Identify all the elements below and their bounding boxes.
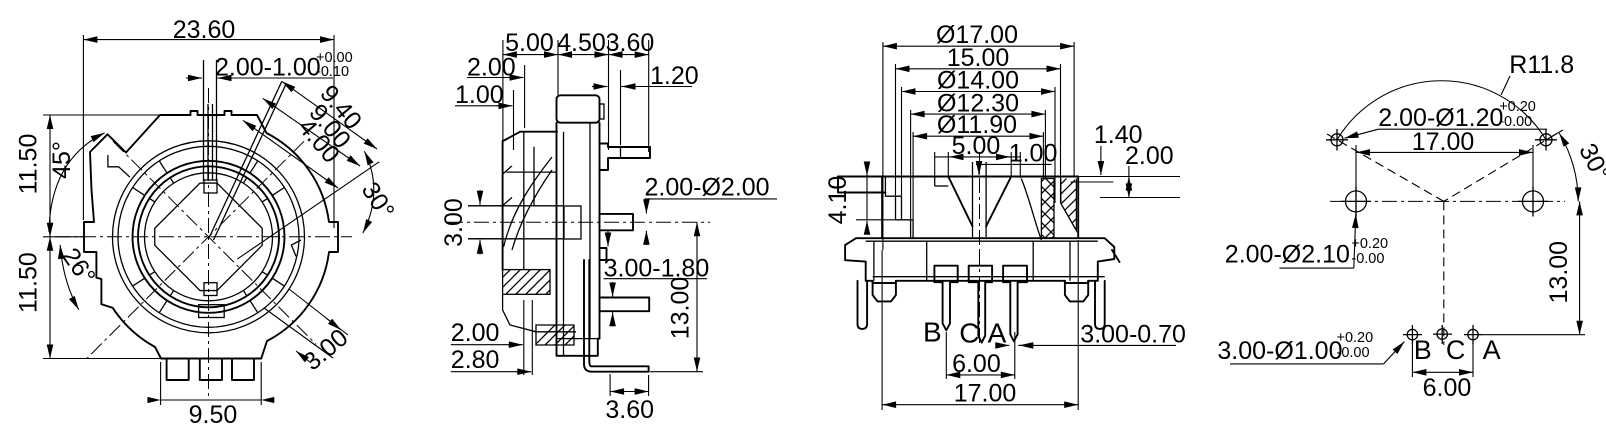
- svg-text:+0.20: +0.20: [1337, 330, 1374, 346]
- svg-text:R11.8: R11.8: [1509, 51, 1574, 79]
- svg-text:2.00-1.00: 2.00-1.00: [215, 54, 321, 82]
- svg-text:C: C: [959, 318, 979, 349]
- svg-text:-0.00: -0.00: [1337, 345, 1370, 361]
- svg-text:1.00: 1.00: [455, 81, 504, 109]
- svg-text:3.00-Ø1.00: 3.00-Ø1.00: [1217, 337, 1342, 365]
- svg-text:2.00: 2.00: [1125, 142, 1174, 170]
- svg-text:11.50: 11.50: [15, 134, 43, 195]
- svg-text:5.00: 5.00: [952, 132, 1001, 160]
- svg-text:1.00: 1.00: [1009, 139, 1058, 167]
- svg-text:-0.00: -0.00: [1499, 114, 1532, 130]
- svg-text:+0.20: +0.20: [1499, 99, 1536, 115]
- svg-text:4.50: 4.50: [557, 29, 606, 57]
- svg-text:3.00-0.70: 3.00-0.70: [1080, 321, 1186, 349]
- svg-text:6.00: 6.00: [952, 350, 1001, 378]
- svg-text:B: B: [923, 317, 942, 348]
- svg-text:9.50: 9.50: [189, 401, 238, 429]
- svg-text:23.60: 23.60: [173, 16, 236, 44]
- svg-text:17.00: 17.00: [1412, 128, 1475, 156]
- svg-text:45°: 45°: [48, 141, 76, 179]
- svg-text:C: C: [1446, 335, 1466, 365]
- svg-text:2.00: 2.00: [451, 319, 500, 347]
- svg-text:A: A: [988, 318, 1007, 349]
- svg-text:3.60: 3.60: [606, 29, 655, 57]
- svg-text:-0.00: -0.00: [1351, 251, 1384, 267]
- svg-text:A: A: [1483, 335, 1501, 365]
- svg-text:11.50: 11.50: [15, 252, 43, 313]
- svg-text:-0.10: -0.10: [316, 64, 349, 80]
- svg-text:B: B: [1414, 335, 1432, 365]
- svg-text:3.00: 3.00: [440, 198, 468, 247]
- svg-text:2.80: 2.80: [451, 346, 500, 374]
- svg-text:13.00: 13.00: [1545, 241, 1573, 304]
- svg-text:4.10: 4.10: [824, 176, 852, 225]
- svg-text:2.00-Ø2.10: 2.00-Ø2.10: [1225, 241, 1350, 269]
- svg-text:17.00: 17.00: [954, 380, 1017, 408]
- svg-text:6.00: 6.00: [1423, 374, 1472, 402]
- svg-text:3.60: 3.60: [605, 396, 654, 424]
- svg-text:2.00-Ø2.00: 2.00-Ø2.00: [645, 174, 770, 202]
- svg-text:1.20: 1.20: [650, 62, 699, 90]
- svg-text:13.00: 13.00: [667, 277, 695, 340]
- svg-text:+0.20: +0.20: [1351, 236, 1388, 252]
